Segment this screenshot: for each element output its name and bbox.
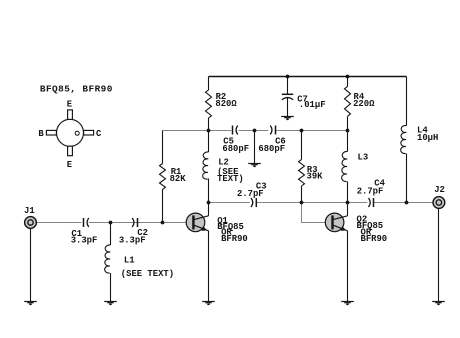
- wire Q2 base link: [302, 203, 326, 223]
- wire R1 column: [162, 131, 164, 223]
- svg-text:BFQ85, BFR90: BFQ85, BFR90: [40, 83, 113, 94]
- capacitor C4: [369, 198, 374, 207]
- wire J1 to ground: [30, 229, 32, 301]
- ground below L1: [104, 302, 117, 305]
- node Q2 collector junction: [346, 201, 350, 205]
- node R1 junction: [161, 221, 165, 225]
- ground below Q1: [202, 302, 215, 305]
- svg-text:E: E: [67, 160, 72, 170]
- svg-text:3.3pF: 3.3pF: [71, 236, 98, 246]
- node R3 rail junction: [300, 129, 304, 133]
- wire top supply rail: [209, 76, 407, 78]
- wire interstage row y202.5: [209, 202, 433, 204]
- svg-text:10µH: 10µH: [417, 133, 438, 143]
- inductor L3: [342, 151, 348, 181]
- node R4 rail junction: [346, 129, 350, 133]
- wire L4 column: [406, 77, 408, 203]
- capacitor C3: [251, 198, 256, 207]
- node Q1 collector junction: [207, 201, 211, 205]
- svg-text:C: C: [96, 129, 102, 139]
- node bypass ground tap: [253, 129, 257, 133]
- svg-text:L3: L3: [358, 153, 369, 163]
- svg-text:J1: J1: [24, 206, 35, 216]
- wire Q2 emitter to ground: [347, 231, 349, 301]
- resistor R2: [206, 90, 212, 118]
- wire Q2 collector: [347, 203, 349, 216]
- capacitor C7: [282, 77, 293, 117]
- svg-text:39K: 39K: [307, 172, 324, 182]
- svg-text:L1: L1: [124, 256, 135, 266]
- svg-text:.01µF: .01µF: [299, 100, 326, 110]
- resistor R1: [160, 164, 166, 190]
- wire R4 column: [347, 77, 349, 131]
- svg-text:E: E: [67, 99, 72, 109]
- wire Q1 collector: [208, 203, 210, 216]
- svg-text:TEXT): TEXT): [217, 174, 244, 184]
- svg-text:220Ω: 220Ω: [353, 99, 375, 109]
- node R4 top junction: [346, 75, 350, 79]
- capacitor C1: [84, 218, 89, 227]
- wire input row y222.5: [37, 222, 187, 224]
- ground below Q2: [341, 302, 354, 305]
- svg-text:B: B: [38, 129, 44, 139]
- ground below C7: [281, 117, 294, 120]
- resistor R4: [345, 87, 351, 117]
- svg-text:680pF: 680pF: [258, 144, 285, 154]
- node R2 rail junction: [207, 129, 211, 133]
- transistor Q2: [325, 213, 347, 232]
- svg-text:BFR90: BFR90: [221, 234, 248, 244]
- node Q2 base junction: [300, 201, 304, 205]
- ground below J2: [432, 302, 445, 305]
- wire L2 column: [208, 131, 210, 203]
- svg-text:BFR90: BFR90: [361, 234, 388, 244]
- node L1 junction: [109, 221, 113, 225]
- svg-text:2.7pF: 2.7pF: [237, 189, 264, 199]
- wire mid rail y130: [163, 130, 348, 132]
- inductor L2: [203, 152, 209, 179]
- connector J2: [433, 197, 445, 209]
- transistor package outline: [46, 110, 93, 156]
- capacitor C2: [132, 218, 137, 227]
- svg-text:820Ω: 820Ω: [215, 99, 237, 109]
- node L4 output junction: [405, 201, 409, 205]
- svg-text:J2: J2: [434, 185, 445, 195]
- ground below J1: [24, 302, 37, 305]
- connector J1: [25, 217, 37, 229]
- wire L1 to ground: [110, 273, 112, 301]
- wire tap to ground: [254, 131, 256, 164]
- inductor L4: [401, 125, 407, 153]
- inductor L1: [105, 245, 111, 273]
- wire J2 to ground: [438, 209, 440, 301]
- wire R2 column: [208, 77, 210, 131]
- svg-text:L2: L2: [218, 158, 229, 168]
- svg-text:680pF: 680pF: [222, 144, 249, 154]
- svg-text:3.3pF: 3.3pF: [119, 236, 146, 246]
- svg-text:(SEE TEXT): (SEE TEXT): [121, 269, 174, 279]
- node C7 top junction: [286, 75, 290, 79]
- wire L3 column: [347, 131, 349, 203]
- transistor Q1: [186, 213, 208, 232]
- svg-text:2.7pF: 2.7pF: [357, 186, 384, 196]
- wire Q1 emitter to ground: [208, 231, 210, 301]
- capacitor C5: [233, 126, 238, 135]
- capacitor C6: [270, 126, 275, 135]
- wire L1 column: [110, 223, 112, 246]
- svg-text:82K: 82K: [170, 174, 187, 184]
- ground below tap: [248, 164, 261, 167]
- resistor R3: [299, 160, 305, 187]
- wire R3 column: [301, 131, 303, 203]
